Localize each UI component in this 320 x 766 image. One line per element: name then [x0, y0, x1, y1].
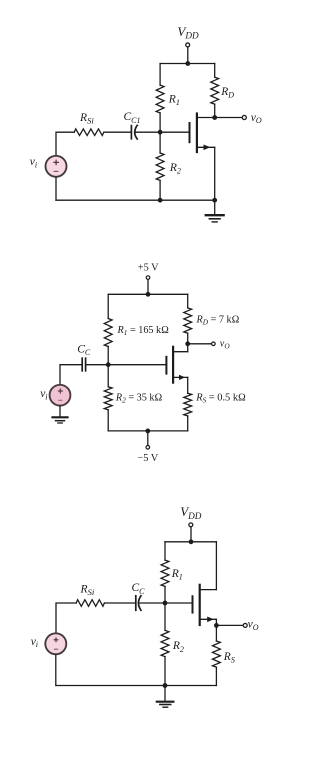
svg-text:VDD: VDD	[177, 24, 199, 41]
wire R1 top lead	[159, 64, 161, 86]
wire RS top lead c3	[215, 625, 217, 641]
wire RD bottom lead c2	[187, 333, 189, 344]
wire R2 top lead c2	[107, 365, 109, 387]
wire RSi to CC1	[104, 131, 130, 133]
wire bottom rail c3	[56, 685, 216, 687]
svg-text:RD = 7 kΩ: RD = 7 kΩ	[196, 315, 240, 327]
svg-text:R2: R2	[169, 162, 181, 176]
wire vi to ground c2	[59, 406, 61, 417]
wire gate lead c2	[108, 364, 166, 366]
node drain junction c2	[185, 341, 190, 346]
ground c2	[53, 417, 68, 423]
wire gate lead	[160, 131, 189, 133]
+5V terminal	[146, 276, 150, 280]
resistor R1 165k	[104, 319, 112, 347]
node VDD rail junction c3	[189, 539, 194, 544]
transistor M3	[193, 585, 217, 625]
node drain junction	[212, 115, 217, 120]
wire bottom rail c2	[108, 430, 188, 432]
svg-text:vO: vO	[220, 338, 231, 350]
source vi c2	[50, 385, 71, 406]
svg-text:CC1: CC1	[124, 111, 141, 125]
capacitor CC c2	[82, 358, 85, 371]
wire R1 top lead c2	[107, 294, 109, 318]
wire R1 bottom lead c3	[164, 586, 166, 603]
node -5V junction	[145, 429, 150, 434]
wire CC to gate node c3	[140, 602, 165, 604]
svg-text:vO: vO	[248, 619, 259, 632]
resistor RSi c3	[76, 600, 104, 607]
wire source to node c3	[215, 619, 217, 625]
svg-text:vi: vi	[31, 636, 38, 649]
wire R2 bottom lead c3	[164, 657, 166, 686]
source vi	[46, 156, 67, 177]
svg-text:RD: RD	[220, 86, 234, 100]
wire VDD stub	[187, 47, 189, 64]
wire drain branch c3	[215, 542, 217, 590]
wire vO output c2	[188, 343, 211, 345]
svg-text:RS: RS	[223, 651, 235, 665]
wire CC1 to gate node	[136, 131, 160, 133]
ground c3	[157, 686, 174, 708]
wire CC right c2	[86, 364, 108, 366]
node gate junction	[158, 130, 163, 135]
wire vO output c3	[216, 624, 242, 626]
wire RS bottom lead c2	[187, 416, 189, 431]
wire RS bottom lead c3	[215, 667, 217, 685]
terminal -5V	[146, 446, 150, 450]
svg-text:RSi: RSi	[79, 112, 94, 126]
wire R1 bottom lead c2	[107, 347, 109, 365]
resistor RSi	[74, 129, 104, 136]
node gate junction c2	[106, 362, 111, 367]
resistor RD 7k	[184, 308, 192, 333]
wire source to RS	[187, 377, 189, 393]
node source junction c3	[214, 623, 219, 628]
wire R2 top lead c3	[164, 603, 166, 630]
resistor R1	[156, 85, 164, 113]
wire RD bottom lead	[214, 104, 216, 117]
svg-text:vi: vi	[30, 156, 37, 169]
ground	[206, 200, 224, 222]
wire top rail c3	[165, 541, 216, 543]
resistor R1 c3	[161, 560, 169, 586]
svg-text:R1: R1	[168, 93, 180, 107]
node VDD rail junction	[185, 61, 190, 66]
transistor M2	[166, 344, 187, 383]
wire CC left c2	[60, 365, 82, 385]
VDD terminal c3	[189, 523, 193, 527]
svg-text:VDD: VDD	[180, 504, 202, 521]
resistor R2 c3	[161, 630, 169, 656]
wire RD top lead c2	[187, 294, 189, 308]
node source ground junction	[212, 198, 217, 203]
resistor R2	[156, 153, 164, 180]
wire RSi to CC c3	[104, 602, 134, 604]
wire vi bottom	[55, 177, 57, 200]
svg-text:RSi: RSi	[80, 584, 95, 598]
wire bottom rail	[56, 199, 215, 201]
svg-text:R1 = 165 kΩ: R1 = 165 kΩ	[117, 325, 170, 337]
wire R1 top lead c3	[164, 542, 166, 560]
terminal vO c3	[243, 623, 247, 627]
source vi c3	[45, 633, 66, 654]
wire VDD stub c3	[190, 527, 192, 542]
resistor RS c3	[212, 641, 220, 667]
wire R2 bottom lead c2	[107, 410, 109, 431]
wire input top left c3	[56, 603, 76, 633]
svg-text:+5 V: +5 V	[138, 262, 159, 273]
resistor RS 0.5k	[184, 393, 192, 416]
wire gate lead c3	[165, 602, 193, 604]
wire top rail c2	[108, 293, 188, 295]
VDD terminal	[186, 43, 190, 47]
node gate junction c3	[163, 601, 168, 606]
wire -5V stub	[147, 431, 149, 445]
wire R2 top lead	[159, 132, 161, 153]
wire RD top lead	[214, 64, 216, 78]
terminal vO	[242, 115, 246, 119]
svg-text:R1: R1	[171, 568, 183, 582]
svg-text:R2 = 35 kΩ: R2 = 35 kΩ	[115, 393, 163, 405]
capacitor CC1	[131, 125, 137, 139]
resistor R2 35k	[104, 387, 112, 410]
resistor RD	[211, 77, 219, 104]
svg-text:R2: R2	[172, 640, 184, 654]
svg-text:CC: CC	[77, 343, 91, 357]
svg-text:−5 V: −5 V	[137, 453, 158, 464]
svg-text:RS = 0.5 kΩ: RS = 0.5 kΩ	[195, 393, 246, 405]
node +5V rail junction	[146, 292, 151, 297]
wire +5V stub	[147, 280, 149, 295]
terminal vO c2	[212, 342, 216, 346]
wire vi bottom c3	[55, 654, 57, 685]
transistor M1	[190, 114, 215, 153]
wire input top left	[56, 132, 74, 156]
wire source to ground rail	[214, 147, 216, 200]
wire R1 bottom lead	[159, 113, 161, 132]
node bottom rail left junction	[158, 198, 163, 203]
svg-text:CC: CC	[132, 582, 146, 596]
wire R2 bottom lead	[159, 180, 161, 200]
svg-text:vO: vO	[251, 112, 262, 125]
capacitor CC c3	[136, 596, 141, 611]
svg-text:vi: vi	[40, 388, 47, 401]
wire vO output	[215, 117, 242, 119]
wire top rail	[160, 63, 215, 65]
node ground junction c3	[163, 683, 168, 688]
